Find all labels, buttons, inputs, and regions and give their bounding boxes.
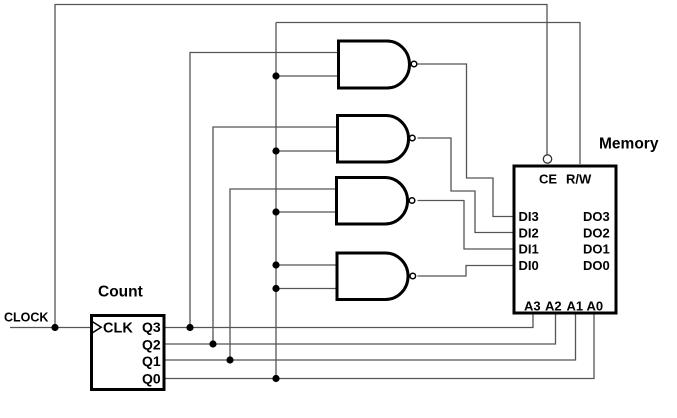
NAND gate U3 xyxy=(337,178,415,225)
svg-text:CLK: CLK xyxy=(103,321,133,337)
wire Q3 to A3 xyxy=(164,314,533,328)
CLK clock-edge triangle xyxy=(93,322,102,333)
junction dot Q0 bus xyxy=(272,375,279,382)
svg-text:CE: CE xyxy=(539,172,557,187)
wire Q0 bus to gate1 input B xyxy=(276,75,339,77)
svg-text:Q0: Q0 xyxy=(142,371,161,387)
wire Q2 to A2 xyxy=(164,314,556,345)
wire Q1 to A1 xyxy=(164,314,576,361)
junction dot gate4 input A xyxy=(272,261,279,268)
junction dot gate1 input B xyxy=(272,72,279,79)
NAND gate U4 (bottom) xyxy=(337,253,416,300)
svg-text:CLOCK: CLOCK xyxy=(4,311,48,325)
junction dot gate3 input B xyxy=(272,208,279,215)
svg-text:R/W: R/W xyxy=(566,172,592,187)
junction dot gate2 input B xyxy=(272,147,279,154)
wire Q0 to A0 xyxy=(164,314,594,379)
svg-text:A1: A1 xyxy=(567,299,584,314)
svg-text:Count: Count xyxy=(98,284,143,301)
svg-text:DI1: DI1 xyxy=(519,242,539,257)
wire Q0 bus to R/W (top horizontal + down to memory top) xyxy=(276,23,580,165)
svg-text:A2: A2 xyxy=(545,299,562,314)
junction dot gate4 input B xyxy=(272,285,279,292)
CE active-low bubble xyxy=(543,155,551,163)
svg-text:DI0: DI0 xyxy=(519,258,539,273)
svg-text:DO3: DO3 xyxy=(583,209,610,224)
svg-text:DI2: DI2 xyxy=(519,226,539,241)
wire gate4 output to DI0 xyxy=(418,266,514,277)
svg-text:Q1: Q1 xyxy=(142,353,161,369)
wire gate3 output to DI1 xyxy=(418,201,514,250)
wire Q0 bus vertical xyxy=(275,23,277,379)
wire gate2 output to DI2 xyxy=(418,138,514,233)
wire Q0 bus to gate3 input B xyxy=(276,211,337,213)
svg-text:Memory: Memory xyxy=(599,136,659,153)
svg-text:DO2: DO2 xyxy=(583,226,610,241)
counter block "Count" xyxy=(92,316,165,390)
junction dot CLOCK/CLK xyxy=(51,324,58,331)
svg-text:DO1: DO1 xyxy=(583,242,610,257)
memory block U5 xyxy=(514,166,616,313)
junction dot Q3 bus xyxy=(186,324,193,331)
wire gate1 output to DI3 xyxy=(418,64,514,217)
wire Q0 bus to gate4 input B xyxy=(276,288,337,290)
wire Q0 bus to gate4 input A xyxy=(276,264,337,266)
wire Q3 bus vertical to gate1 input A xyxy=(190,53,339,328)
junction dot Q1 bus xyxy=(226,356,233,363)
wire CLOCK to CE (left vertical + top horizontal + down to CE bubble) xyxy=(55,5,547,328)
svg-text:DI3: DI3 xyxy=(519,209,539,224)
wire CLOCK input xyxy=(10,327,91,329)
wire Q2 bus vertical to gate2 input A xyxy=(213,127,338,344)
junction dot Q2 bus xyxy=(209,340,216,347)
wire Q0 bus to gate2 input B xyxy=(276,150,338,152)
svg-text:Q2: Q2 xyxy=(142,337,161,353)
svg-text:Q3: Q3 xyxy=(142,319,161,335)
wire Q1 bus vertical to gate3 input A xyxy=(230,189,337,360)
svg-text:A3: A3 xyxy=(524,299,541,314)
svg-text:A0: A0 xyxy=(587,299,604,314)
NAND gate U1 (top) xyxy=(339,41,417,88)
svg-text:DO0: DO0 xyxy=(583,258,610,273)
NAND gate U2 xyxy=(338,116,416,163)
